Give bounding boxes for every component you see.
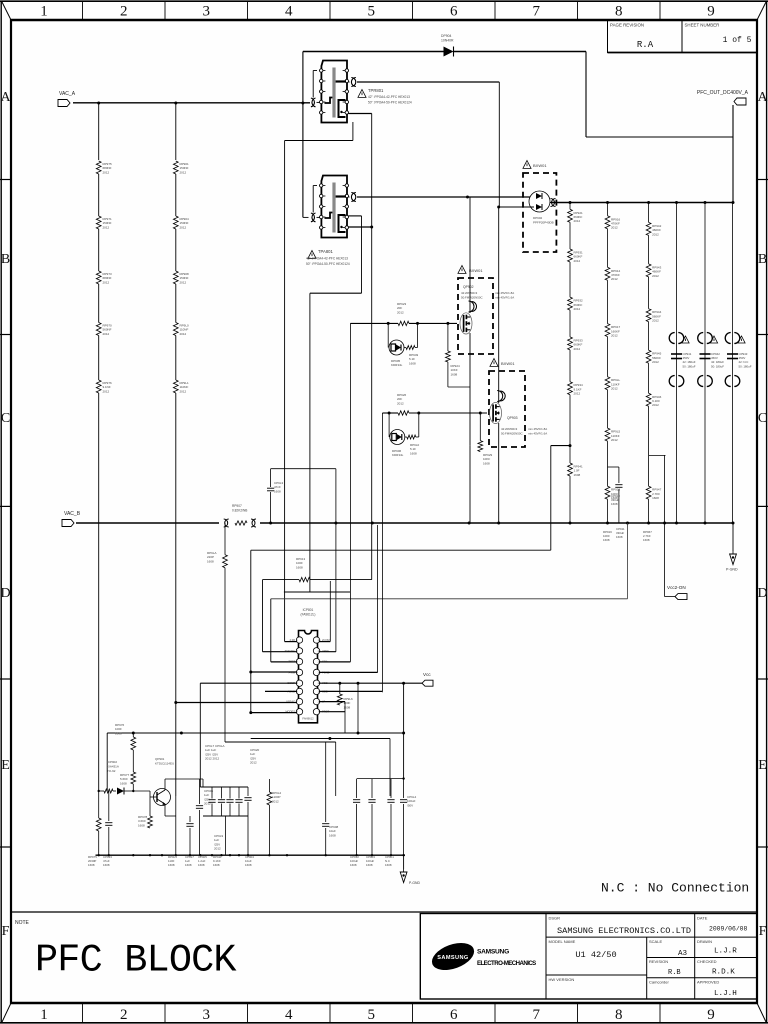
resistor RP975b + capacitor CP933 left [96, 790, 112, 855]
spark gap SG2 [251, 519, 255, 527]
resistor RP904 [173, 216, 189, 229]
svg-text:TPR801: TPR801 [368, 88, 384, 93]
wire QP901 emitter [165, 796, 176, 855]
svg-text:min 45VF/1.6A: min 45VF/1.6A [528, 432, 547, 436]
bus junction dots [569, 201, 735, 204]
svg-text:2012: 2012 [611, 277, 618, 281]
svg-text:ICP902: ICP902 [107, 760, 117, 764]
svg-text:1608: 1608 [366, 863, 373, 867]
svg-text:1608: 1608 [643, 538, 650, 542]
svg-text:P-GND: P-GND [409, 881, 420, 885]
capacitor CP9L1 [387, 779, 394, 856]
svg-text:1608: 1608 [385, 863, 392, 867]
connector Vcc [422, 672, 433, 686]
svg-text:E: E [1, 758, 10, 773]
svg-text:CHECKED: CHECKED [697, 959, 717, 964]
svg-text:Vcc: Vcc [423, 672, 431, 677]
connector PFC_OUT_DC400V_A [697, 90, 749, 105]
sheet number box [608, 20, 758, 53]
svg-text:42" :PPOA4-42-PFC HEX013: 42" :PPOA4-42-PFC HEX013 [368, 95, 410, 99]
resistor RP9L6 [337, 683, 353, 709]
wire [175, 174, 177, 216]
svg-text:D: D [757, 586, 767, 601]
svg-text:1608: 1608 [483, 461, 490, 465]
svg-text:L.J.H: L.J.H [714, 990, 737, 998]
svg-text:3: 3 [203, 1007, 211, 1023]
wire column x=732.5 [732, 203, 734, 524]
svg-text:1608: 1608 [213, 863, 220, 867]
svg-text:1608: 1608 [207, 559, 214, 563]
transformer TP8801 (T1) [320, 61, 349, 123]
svg-text:F: F [759, 924, 767, 939]
node VAC_A junctions [97, 102, 304, 105]
wire IC right pin15 [319, 651, 336, 653]
resistor RP924 [446, 323, 471, 387]
svg-text:42:20N50C3: 42:20N50C3 [461, 291, 478, 295]
svg-text:1 of 5: 1 of 5 [723, 36, 752, 45]
svg-text:R.A: R.A [637, 40, 654, 50]
svg-text:1608: 1608 [168, 863, 175, 867]
resistor RP907 [232, 504, 247, 525]
wire [98, 174, 100, 216]
wire y=733 [107, 732, 405, 792]
svg-text:Camcorder: Camcorder [649, 980, 669, 985]
resistor RP970 [96, 323, 112, 336]
wire from boost junction into diode [498, 206, 534, 208]
svg-text:MODEL NAME: MODEL NAME [549, 939, 576, 944]
svg-text:QP901: QP901 [155, 757, 165, 761]
wire column x=570 [569, 203, 571, 524]
svg-text:7: 7 [533, 1007, 541, 1023]
resistor RP916 [605, 216, 620, 230]
svg-text:SAMSUNG: SAMSUNG [437, 955, 468, 961]
samsung logo [428, 938, 536, 976]
svg-text:1608: 1608 [574, 473, 581, 477]
resistor RP9L0 [173, 323, 189, 336]
svg-text:2012: 2012 [103, 170, 110, 174]
capacitor CP912 [353, 779, 360, 855]
capacitor CP908 [322, 742, 338, 855]
svg-text:VAC_A: VAC_A [59, 91, 76, 97]
svg-text:SAMSUNG ELECTRONICS.CO.LTD: SAMSUNG ELECTRONICS.CO.LTD [557, 926, 691, 936]
wire IC pin3 [271, 661, 297, 663]
wire y=742 [225, 523, 336, 796]
wire [175, 284, 177, 323]
wire aux vertical [357, 683, 359, 733]
svg-text:2012: 2012 [611, 387, 618, 391]
svg-text:D: D [0, 586, 10, 601]
resistor RP929 [478, 413, 493, 465]
svg-text:min 45VF/1.6A: min 45VF/1.6A [495, 296, 514, 300]
svg-text:5: 5 [368, 4, 376, 20]
IC pins left [285, 637, 303, 715]
svg-text:ELECTRO-MECHANICS: ELECTRO-MECHANICS [477, 960, 536, 967]
svg-text:6: 6 [450, 1007, 458, 1023]
svg-text:REVISION: REVISION [649, 959, 668, 964]
resistor RP9L1 [173, 380, 189, 393]
svg-text:2012 2012: 2012 2012 [205, 757, 220, 761]
svg-text:1608: 1608 [245, 863, 252, 867]
dashed box BXW01 (QP903) [489, 359, 547, 448]
resistor RP941 [568, 463, 583, 477]
wire VAC_B / return bus y=523 [76, 522, 733, 524]
svg-text:1608: 1608 [611, 502, 618, 506]
wire Vcc cap link y=778.6 [203, 777, 405, 787]
resistor RP978 [138, 797, 152, 828]
wire IC right pin9 [319, 702, 345, 733]
capacitor CP943 electrolytic [725, 333, 752, 387]
transistor QP902 [460, 301, 477, 334]
capacitor CP905 [196, 779, 203, 855]
svg-text:50: 180uF: 50: 180uF [711, 364, 724, 368]
svg-text:SAMSUNG: SAMSUNG [477, 949, 509, 956]
labels below return bus [603, 527, 652, 542]
svg-text:2012: 2012 [180, 389, 187, 393]
ground P-GND bottom [400, 855, 420, 885]
wire feedback long y=550.2 [251, 549, 551, 551]
labels below rail [88, 855, 394, 867]
svg-text:1608: 1608 [88, 863, 95, 867]
resistor RP901 [173, 161, 189, 174]
svg-text:8: 8 [615, 4, 623, 20]
wire QP903 drain/source [498, 207, 500, 523]
svg-text:B: B [1, 252, 10, 267]
diode DP906 [389, 413, 419, 457]
return bus junctions [269, 522, 734, 525]
label TPR801 [358, 88, 412, 105]
svg-text:R.B: R.B [668, 969, 681, 977]
svg-text:1: 1 [40, 1007, 48, 1023]
resistor RP923 [397, 302, 409, 326]
svg-text:SCALE: SCALE [649, 939, 662, 944]
svg-text:50" :PPOA4-50-PFC HEX0124: 50" :PPOA4-50-PFC HEX0124 [306, 262, 350, 266]
svg-text:VAC_B: VAC_B [64, 511, 81, 517]
svg-text:C: C [758, 411, 767, 426]
shunt regulator ICP902 KIA431A [99, 760, 135, 795]
svg-text:1608: 1608 [350, 863, 357, 867]
svg-text:9: 9 [707, 4, 715, 20]
wire [98, 336, 100, 381]
capacitor CP942 electrolytic [698, 333, 725, 387]
spark gap SG1 [224, 519, 228, 527]
resistor RP943 [646, 264, 661, 278]
svg-text:3: 3 [203, 4, 211, 20]
svg-text:8: 8 [615, 1007, 623, 1023]
capacitor CP910 [608, 467, 623, 523]
wire T2 left aux loop + coupling [303, 186, 320, 222]
svg-text:1608: 1608 [198, 863, 205, 867]
svg-text:1608: 1608 [344, 705, 351, 709]
svg-text:50" :PPOA4-50-PFC HEX0124: 50" :PPOA4-50-PFC HEX0124 [368, 101, 412, 105]
svg-text:BXW01: BXW01 [501, 361, 515, 366]
wire IC Vcc pin12 [319, 682, 422, 685]
connector VAC_B [62, 511, 81, 527]
svg-text:min 45VF/1.8A: min 45VF/1.8A [495, 291, 514, 295]
resistor RP947 [646, 486, 661, 500]
wire T2 pin4R sense path [310, 216, 362, 592]
wire T2 right coupling [349, 193, 535, 202]
wire feedback verticals to IC [251, 550, 271, 712]
svg-text:2012: 2012 [574, 347, 581, 351]
svg-text:2: 2 [120, 1007, 128, 1023]
diode DP905 [388, 323, 418, 367]
svg-text:DP904: DP904 [441, 34, 451, 38]
resistor RP926 [397, 393, 409, 415]
wire [98, 284, 100, 323]
svg-text:DSGR: DSGR [549, 916, 561, 921]
svg-text:L.J.R: L.J.R [714, 948, 737, 956]
svg-text:2012: 2012 [272, 799, 279, 803]
ground P-GND right [726, 523, 738, 572]
svg-text:NOTE: NOTE [15, 920, 30, 926]
op-amp / controller ICP801 [299, 608, 318, 723]
svg-text:2012: 2012 [652, 360, 659, 364]
svg-text:KDR34L: KDR34L [391, 363, 403, 367]
wire IC right pin16 [319, 581, 330, 642]
svg-text:min 45VF/1.8A: min 45VF/1.8A [528, 427, 547, 431]
wire column x=607.5 [607, 203, 609, 524]
svg-text:1608: 1608 [329, 833, 336, 837]
resistor RP977 [120, 772, 136, 791]
wire output bus y=202.5 [552, 202, 733, 204]
svg-text:2012: 2012 [103, 389, 110, 393]
svg-text:1608: 1608 [410, 451, 417, 455]
diode DP902 dual [529, 191, 554, 224]
svg-text:2012: 2012 [574, 219, 581, 223]
svg-text:KIA431A: KIA431A [107, 764, 119, 768]
svg-text:2012: 2012 [611, 438, 618, 442]
resistor RP932 [568, 297, 583, 311]
resistor RP976 [96, 380, 112, 393]
svg-text:1: 1 [40, 4, 48, 20]
resistor RP921 [568, 209, 583, 223]
svg-text:4: 4 [285, 1007, 293, 1023]
diode DP904 [441, 34, 454, 57]
transistor QP901 [133, 757, 174, 806]
svg-text:50: 180uF: 50: 180uF [683, 364, 696, 368]
svg-text:2012: 2012 [574, 307, 581, 311]
svg-text:DRAWN: DRAWN [697, 939, 712, 944]
wire CP911 branch [271, 523, 628, 599]
svg-text:KTD(C)114EU: KTD(C)114EU [155, 761, 174, 765]
wire T1 aux loop [285, 122, 353, 642]
svg-text:PFC_OUT_DC400V_A: PFC_OUT_DC400V_A [697, 90, 749, 96]
svg-text:1608: 1608 [120, 781, 127, 785]
wire T1 right coupling to boost [349, 78, 500, 208]
svg-text:1608: 1608 [409, 361, 416, 365]
svg-text:1608: 1608 [115, 731, 122, 735]
wire [98, 229, 100, 271]
svg-text:KDR34L: KDR34L [392, 453, 404, 457]
svg-text:A: A [757, 90, 768, 105]
capacitor CP920 [244, 748, 259, 855]
resistor RP976 [115, 723, 136, 772]
svg-text:2012: 2012 [652, 274, 659, 278]
wire IC right pin14 GDA [319, 661, 350, 663]
svg-text:/50V: /50V [407, 803, 413, 807]
node gate2 junctions [388, 412, 482, 415]
svg-text:9: 9 [707, 1007, 715, 1023]
svg-text:1608: 1608 [451, 372, 458, 376]
svg-text:R.D.K: R.D.K [712, 969, 735, 977]
svg-text:N.C : No Connection: N.C : No Connection [601, 881, 749, 896]
svg-text:1608: 1608 [138, 823, 145, 827]
wire shunt node y=445.6 [551, 444, 572, 550]
note box [11, 912, 757, 926]
svg-text:1608: 1608 [616, 535, 623, 539]
svg-text:SHEET NUMBER: SHEET NUMBER [685, 23, 720, 28]
connector VAC_A [58, 91, 76, 107]
wire column x=676.5 [676, 203, 678, 524]
svg-text:HW VERSION: HW VERSION [549, 977, 575, 982]
svg-text:(FA9612L): (FA9612L) [301, 612, 316, 616]
svg-text:2012: 2012 [397, 310, 404, 314]
wire boost to PFC_OUT [586, 52, 733, 203]
svg-text:DP902: DP902 [533, 216, 543, 220]
svg-text:2012: 2012 [214, 847, 221, 851]
dashed box BXW01 (DP902) [523, 161, 556, 253]
svg-text:6: 6 [450, 4, 458, 20]
wire T1 bottom pin [349, 114, 372, 228]
wire QP902 drain/source [469, 197, 471, 523]
svg-text:2012: 2012 [574, 392, 581, 396]
resistor RP914 [605, 267, 620, 281]
title block table [420, 914, 757, 1000]
capacitor CP941 electrolytic [669, 333, 696, 387]
resistor RP917 [605, 324, 620, 338]
resistor RP971 [96, 216, 112, 229]
resistor RP933 [568, 337, 583, 351]
page revision box [608, 20, 683, 53]
svg-text:2012: 2012 [180, 225, 187, 229]
node T2 drain junction [466, 196, 469, 199]
wire top boost rail y=51.5 [303, 52, 586, 218]
svg-text:BXW01: BXW01 [469, 268, 483, 273]
svg-text:DATE: DATE [697, 916, 708, 921]
wire column x=648.6 [648, 203, 650, 524]
svg-text:2012: 2012 [574, 259, 581, 263]
svg-text:APPROVED: APPROVED [697, 980, 719, 985]
wire Vcc branch down [403, 683, 405, 778]
resistor RP944 [646, 309, 661, 323]
wire IC pin5 COMP [200, 683, 297, 787]
resistor RP973 [96, 271, 112, 284]
wire [175, 336, 177, 381]
wire IC right pin13 [319, 525, 378, 672]
wire analog rail y=855 [96, 854, 406, 856]
svg-text:P-GND: P-GND [726, 568, 738, 572]
svg-text:2012: 2012 [103, 280, 110, 284]
svg-text:4: 4 [285, 4, 293, 20]
resistor RP931 [568, 249, 583, 263]
resistor RP934 [568, 382, 583, 396]
resistor RP942 [646, 222, 661, 236]
svg-text:42" :PPOA4-42-PFC HEX013: 42" :PPOA4-42-PFC HEX013 [306, 257, 348, 261]
svg-text:Vcc2-ON: Vcc2-ON [667, 585, 686, 590]
wire sense to IC right column [335, 469, 337, 652]
svg-text:2009/06/08: 2009/06/08 [709, 926, 748, 933]
capacitor CP903 [368, 779, 375, 855]
svg-text:PFC BLOCK: PFC BLOCK [35, 939, 237, 983]
transformer TPA801 (T2) [320, 176, 349, 238]
svg-text:7: 7 [533, 4, 541, 20]
wire IC pin1 [285, 641, 297, 643]
resistor RP975 [96, 161, 112, 174]
svg-text:50:FMW20N50C: 50:FMW20N50C [461, 296, 483, 300]
svg-text:2012: 2012 [397, 401, 404, 405]
svg-text:QP902: QP902 [463, 285, 474, 289]
wire IC right pin10 [319, 701, 345, 703]
capacitor bank CP906/CP913/CP914/CP919 [200, 744, 248, 851]
svg-text:50:FMW20N50C: 50:FMW20N50C [501, 432, 523, 436]
svg-text:5: 5 [368, 1007, 376, 1023]
IC pins right [313, 637, 329, 715]
svg-text:2012: 2012 [611, 334, 618, 338]
svg-text:PAGE REVISION: PAGE REVISION [610, 23, 644, 28]
svg-text:1608: 1608 [296, 565, 303, 569]
svg-text:1608: 1608 [603, 538, 610, 542]
svg-text:U1 42/50: U1 42/50 [575, 950, 616, 960]
wire col3 branch [649, 455, 666, 523]
resistor RP9LL [605, 377, 620, 391]
wire IC pin7 VSEAC [174, 701, 297, 704]
svg-text:50: 180uF: 50: 180uF [739, 364, 752, 368]
svg-text:QP903: QP903 [507, 416, 518, 420]
resistor RP915 [605, 486, 620, 500]
svg-text:FAN9612: FAN9612 [302, 717, 314, 721]
svg-text:1608: 1608 [103, 863, 110, 867]
svg-text:A3: A3 [678, 950, 688, 958]
resistor RP9L2 [267, 779, 282, 855]
capacitor CP9LB [267, 469, 336, 523]
svg-text:B: B [758, 252, 767, 267]
svg-text:0.82K2/NB: 0.82K2/NB [232, 509, 247, 513]
wire chains continue down [99, 393, 176, 796]
svg-text:2012: 2012 [611, 226, 618, 230]
wire IC pin2 [263, 651, 298, 653]
svg-text:BXW01: BXW01 [533, 163, 547, 168]
resistor RP945 [646, 350, 661, 364]
wire T1 left aux loop + coupling [311, 71, 320, 107]
wire IC pin6 [265, 690, 297, 692]
wire [175, 229, 177, 271]
wire left chain columns [99, 103, 176, 160]
dashed box BXW01 (QP902) [458, 266, 514, 355]
wire QP901 collector [165, 779, 226, 855]
svg-text:1608: 1608 [185, 863, 192, 867]
svg-text:2012: 2012 [204, 802, 211, 806]
wire VAC_A horizontal [73, 102, 310, 104]
svg-text:TO-92: TO-92 [107, 769, 116, 773]
svg-text:2: 2 [120, 4, 128, 20]
svg-text:2012: 2012 [180, 170, 187, 174]
wire gate drive 1 y=323.4 [350, 323, 457, 662]
wire T2 bottom pin [349, 226, 374, 580]
resistor RP908 [173, 271, 189, 284]
connector Vcc2-ON [665, 523, 687, 600]
svg-text:TPA801: TPA801 [318, 249, 333, 254]
resistor RP946 [646, 393, 661, 407]
svg-text:C: C [1, 411, 10, 426]
node gate1 junctions [387, 322, 450, 325]
resistor RP9L5 [605, 428, 620, 442]
svg-text:ICP801: ICP801 [303, 608, 314, 612]
wire gate drive 2 y=413 [382, 413, 487, 692]
title block texts [549, 916, 748, 999]
svg-text:2012: 2012 [103, 225, 110, 229]
svg-text:2012: 2012 [180, 332, 187, 336]
svg-text:42:20N50C3: 42:20N50C3 [501, 427, 518, 431]
